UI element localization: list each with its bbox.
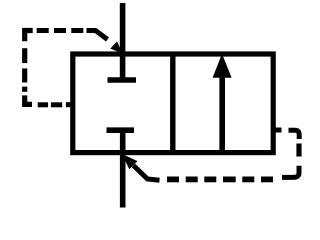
right pilot dashed corner top-right [289, 130, 300, 139]
bottom pilot dashed diagonal with tail [134, 166, 160, 181]
bottom pilot port line [120, 130, 126, 207]
left pilot dashed vertical run [22, 48, 27, 92]
left pilot arrowhead at top junction [110, 41, 122, 53]
left pilot dashed elbow into diagonal [87, 31, 108, 40]
bottom blocked-port crossbar [107, 127, 135, 133]
left pilot dashed line, lower horizontal run [38, 102, 71, 107]
right pilot dashed corner bottom-right [282, 166, 299, 178]
left pilot dashed corner top-left [25, 31, 33, 42]
top blocked-port crossbar [108, 77, 137, 82]
valve body outline [73, 54, 273, 153]
valve position divider [170, 54, 175, 153]
bottom dashed horizontal run [167, 176, 273, 182]
right pilot dashed stub from body [276, 128, 282, 133]
flow arrow shaft [219, 75, 225, 153]
bottom pilot arrowhead at bottom junction [122, 154, 138, 169]
flow arrow head [213, 54, 232, 78]
top pilot port line [120, 3, 126, 80]
right pilot dashed vertical run [296, 144, 301, 157]
left pilot dashed top horizontal run [37, 28, 84, 33]
left pilot dashed corner bottom-left [25, 95, 32, 104]
